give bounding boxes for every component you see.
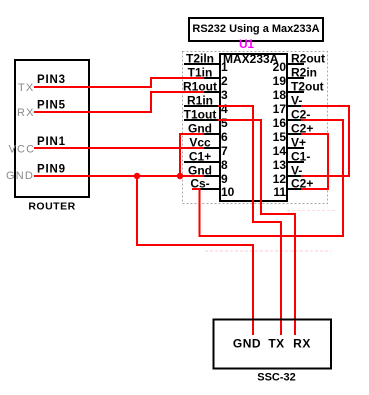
svg-text:T2out: T2out <box>291 80 324 94</box>
svg-text:1: 1 <box>221 60 228 74</box>
wire GND branch down to SSC-32 GND <box>137 176 253 335</box>
svg-text:11: 11 <box>273 185 286 199</box>
svg-text:R2in: R2in <box>291 66 317 80</box>
svg-text:GND: GND <box>233 337 261 351</box>
svg-text:RS232 Using a Max233A: RS232 Using a Max233A <box>192 23 319 35</box>
pin numbers right <box>273 60 287 199</box>
wires (red) <box>34 78 349 335</box>
svg-text:PIN1: PIN1 <box>37 136 66 148</box>
pin numbers left <box>221 60 235 199</box>
svg-text:T1out: T1out <box>184 108 217 122</box>
junction node on GND wire (drop) <box>134 173 140 179</box>
wire T1out pin5 to SSC-32 RX <box>218 120 295 335</box>
svg-text:PIN9: PIN9 <box>37 164 66 176</box>
svg-text:C1+: C1+ <box>189 150 211 164</box>
wire Cs- pin10 to C2- pin16 <box>192 120 343 236</box>
svg-text:V-: V- <box>291 94 302 108</box>
svg-text:16: 16 <box>273 116 287 130</box>
svg-text:5: 5 <box>221 116 228 130</box>
ghost artifact line 2 <box>287 210 337 212</box>
svg-text:V-: V- <box>291 164 302 178</box>
svg-text:8: 8 <box>221 158 228 172</box>
wire RX PIN5 to R1out pin3 <box>34 92 204 112</box>
svg-text:SSC-32: SSC-32 <box>257 372 296 384</box>
connector SSC-32 box <box>214 320 332 384</box>
wire GND PIN9 to Gnd pin9 <box>34 175 204 177</box>
svg-text:14: 14 <box>273 144 287 158</box>
title box <box>189 18 323 41</box>
svg-text:7: 7 <box>221 144 228 158</box>
pin stubs left <box>184 64 220 189</box>
svg-text:RX: RX <box>17 107 35 119</box>
wire VCC PIN1 to Vcc pin7 <box>34 147 204 149</box>
svg-text:V+: V+ <box>291 136 306 150</box>
svg-text:TX: TX <box>268 337 284 351</box>
pin labels left <box>183 52 217 191</box>
ghost artifact line 1 <box>205 250 331 252</box>
svg-text:MAX233A: MAX233A <box>223 52 279 66</box>
svg-text:VCC: VCC <box>9 143 36 155</box>
gray signal names on ROUTER <box>6 82 35 182</box>
junction node on GND wire (pin6 branch) <box>177 173 183 179</box>
wire V- pin17 to V- pin12 <box>301 106 349 176</box>
svg-text:15: 15 <box>273 130 287 144</box>
svg-text:6: 6 <box>221 130 228 144</box>
op-amp U1 MAX233A chip body <box>220 52 287 201</box>
wire TX PIN3 to T1in pin2 <box>34 78 204 87</box>
svg-text:PIN5: PIN5 <box>37 100 66 112</box>
svg-text:2: 2 <box>221 74 228 88</box>
selection dashed box <box>183 52 328 204</box>
svg-text:3: 3 <box>221 88 228 102</box>
PIN number labels on router wires <box>37 74 66 176</box>
wire C2+ pin15 to C2+ pin11 <box>301 134 328 189</box>
wire R1in pin4 to SSC-32 TX <box>218 106 281 335</box>
pin labels right <box>291 52 325 191</box>
svg-text:PIN3: PIN3 <box>37 74 66 86</box>
pin stubs right <box>286 64 304 189</box>
svg-text:TX: TX <box>18 82 34 94</box>
svg-text:R1in: R1in <box>187 94 213 108</box>
svg-text:T2iln: T2iln <box>186 52 214 66</box>
svg-text:20: 20 <box>273 60 287 74</box>
svg-text:12: 12 <box>273 172 287 186</box>
connector ROUTER box <box>15 60 89 213</box>
svg-text:C1-: C1- <box>291 150 310 164</box>
svg-text:9: 9 <box>221 172 228 186</box>
svg-text:10: 10 <box>221 185 235 199</box>
svg-text:13: 13 <box>273 158 287 172</box>
svg-text:ROUTER: ROUTER <box>28 201 75 213</box>
wire GND branch to pin6 Gnd <box>180 134 204 176</box>
svg-text:RX: RX <box>293 337 311 351</box>
svg-text:17: 17 <box>273 102 287 116</box>
svg-text:U1: U1 <box>239 37 254 51</box>
svg-text:R2out: R2out <box>291 52 325 66</box>
svg-text:GND: GND <box>6 170 34 182</box>
svg-text:19: 19 <box>273 74 287 88</box>
svg-text:4: 4 <box>221 102 228 116</box>
svg-text:18: 18 <box>273 88 287 102</box>
